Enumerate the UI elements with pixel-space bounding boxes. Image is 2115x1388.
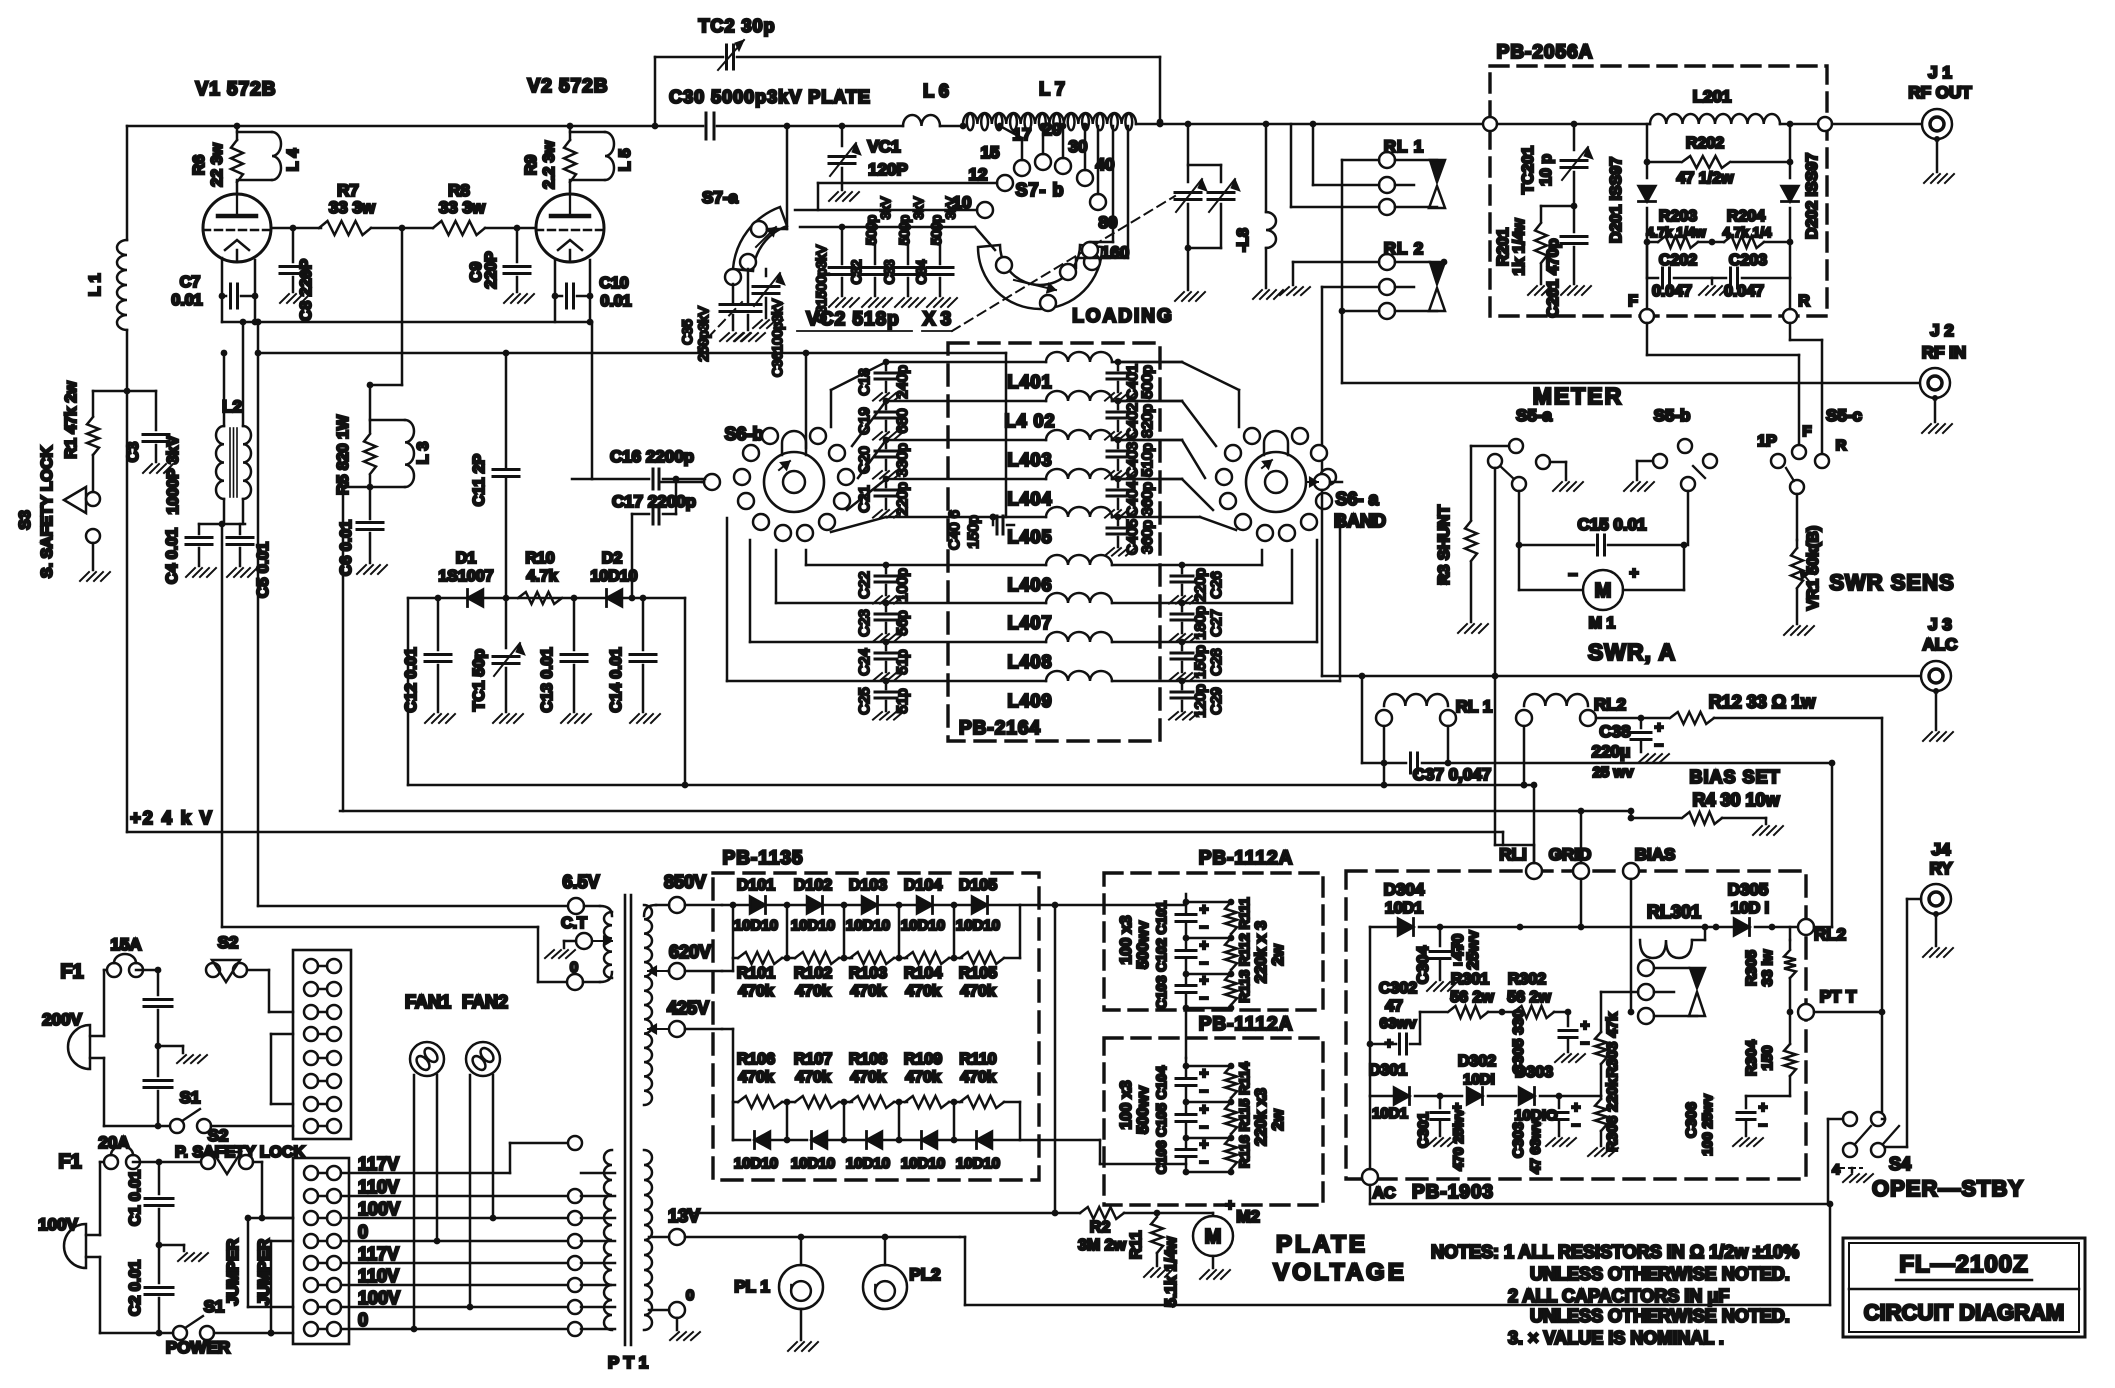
svg-text:V2 572B: V2 572B — [528, 76, 609, 97]
svg-text:15: 15 — [981, 143, 1000, 162]
capacitor C36 — [735, 269, 785, 377]
svg-text:−: − — [1759, 1117, 1768, 1134]
capacitor C203 — [1712, 242, 1790, 300]
capacitor C402 — [1107, 398, 1156, 439]
svg-text:+: + — [1581, 1017, 1590, 1034]
svg-text:C2 0.01: C2 0.01 — [127, 1260, 144, 1316]
S7-b contact 160 — [1060, 243, 1129, 280]
S7-b contact 12 — [969, 165, 1013, 191]
ground C13 — [561, 714, 591, 723]
svg-text:PB-1135: PB-1135 — [723, 848, 804, 869]
svg-text:150: 150 — [1759, 1045, 1776, 1070]
svg-text:L406: L406 — [1007, 575, 1052, 595]
svg-text:PL2: PL2 — [909, 1265, 940, 1284]
svg-text:51p: 51p — [894, 688, 911, 713]
svg-text:22 3w: 22 3w — [209, 143, 226, 187]
resistor R105 — [959, 952, 1004, 1000]
resistor R2 — [1078, 1207, 1160, 1254]
ground VR1 — [1784, 626, 1814, 635]
ground J4 — [1923, 948, 1953, 957]
svg-text:S1: S1 — [180, 1088, 201, 1107]
ground R201 — [1528, 286, 1558, 295]
ground S5-a — [1553, 482, 1583, 491]
svg-text:117V: 117V — [358, 1244, 399, 1264]
svg-text:L404: L404 — [1007, 489, 1052, 509]
wire S5a wiper line — [1495, 468, 1534, 862]
svg-text:VC1: VC1 — [867, 137, 900, 156]
inductor L403 — [1007, 430, 1112, 470]
svg-text:D305: D305 — [1728, 880, 1769, 899]
capacitor C34 — [914, 196, 958, 296]
wire RLI vert — [1533, 785, 1536, 863]
svg-text:R1 47k 2w: R1 47k 2w — [63, 381, 80, 459]
S6-b fan w9 — [727, 518, 886, 681]
wire L2 bottom — [224, 499, 243, 524]
capacitor C406 — [946, 510, 1014, 550]
svg-text:470k: 470k — [960, 1069, 996, 1086]
svg-text:510p: 510p — [1139, 443, 1156, 476]
wire R12 to S4 — [1882, 1118, 1885, 1121]
verticals PB1135 top — [733, 905, 954, 958]
label PLATE VOLTAGE — [1273, 1231, 1406, 1286]
svg-text:R9: R9 — [523, 155, 540, 176]
box PB-1903 — [1346, 871, 1806, 1203]
svg-text:S6- a: S6- a — [1335, 489, 1379, 509]
svg-text:470k: 470k — [738, 1069, 774, 1086]
wire J4 route — [1885, 899, 1921, 1147]
S6-a fan w6 — [1182, 550, 1262, 565]
svg-text:L201: L201 — [1693, 87, 1732, 106]
svg-text:C4 0.01: C4 0.01 — [164, 528, 181, 584]
svg-text:3kV: 3kV — [911, 196, 926, 219]
resistor R201 — [1495, 206, 1547, 284]
diode D301 — [1369, 1062, 1462, 1122]
ground 0V — [670, 1332, 700, 1340]
ground C23 — [873, 634, 903, 642]
svg-text:C1 0.01: C1 0.01 — [127, 1170, 144, 1226]
svg-text:C21: C21 — [856, 485, 873, 513]
ground C32 — [862, 298, 892, 307]
S7-b contact 80 — [1082, 213, 1117, 258]
svg-text:10D10: 10D10 — [734, 1155, 778, 1172]
ground C28 — [1169, 673, 1199, 681]
svg-text:120P: 120P — [868, 160, 908, 179]
svg-text:C303: C303 — [1510, 1122, 1527, 1158]
S7-b contact 40 — [1090, 155, 1114, 210]
svg-text:10D10: 10D10 — [791, 917, 835, 934]
ground M2 — [1200, 1270, 1230, 1279]
svg-text:C15 0.01: C15 0.01 — [1578, 515, 1647, 534]
svg-text:10 p: 10 p — [1538, 154, 1555, 186]
capacitor C303 — [1510, 1096, 1581, 1174]
inductor L1 — [87, 126, 127, 832]
tube V1 — [203, 194, 271, 262]
capacitor C31 — [814, 227, 855, 323]
ground C201 — [1561, 286, 1591, 295]
S6-a wiper out — [1306, 474, 1342, 490]
ground mid 2056 — [1699, 286, 1729, 295]
svg-text:TC2 30p: TC2 30p — [698, 16, 775, 36]
svg-text:SWR SENS: SWR SENS — [1829, 570, 1954, 595]
ground C26 — [1169, 596, 1199, 604]
svg-text:220μ: 220μ — [1592, 742, 1631, 761]
svg-text:TC201: TC201 — [1520, 146, 1537, 194]
svg-text:CIRCUIT DIAGRAM: CIRCUIT DIAGRAM — [1864, 1300, 2064, 1325]
capacitor C30 — [669, 87, 871, 139]
svg-text:D1: D1 — [456, 550, 477, 567]
svg-text:OPER—STBY: OPER—STBY — [1872, 1176, 2024, 1201]
svg-text:10D10: 10D10 — [590, 568, 637, 585]
ground C19 — [873, 432, 903, 440]
svg-text:FAN2: FAN2 — [462, 992, 508, 1012]
svg-text:BAND: BAND — [1334, 511, 1386, 531]
S6-a fan w3 — [1118, 440, 1205, 478]
ground C31 — [829, 298, 859, 307]
svg-text:FL—2100Z: FL—2100Z — [1899, 1251, 2028, 1278]
svg-text:117V: 117V — [358, 1154, 399, 1174]
switch S5-b sym — [1653, 406, 1717, 491]
svg-text:RL2: RL2 — [1594, 695, 1626, 714]
svg-text:D2: D2 — [602, 550, 623, 567]
S7-b contact 20 — [1043, 120, 1071, 174]
switch S5-a sym — [1488, 406, 1566, 491]
svg-text:33 Iw: 33 Iw — [1759, 949, 1776, 986]
svg-text:C8 220P: C8 220P — [298, 259, 315, 322]
wire L7 out — [1136, 121, 1490, 128]
svg-text:100 x3: 100 x3 — [1118, 915, 1135, 964]
svg-text:100 25wv: 100 25wv — [1699, 1094, 1715, 1156]
variable VC1 — [829, 126, 908, 190]
inductor L8 — [1235, 124, 1276, 288]
svg-text:4: 4 — [1832, 1161, 1840, 1177]
resistor R5 — [335, 414, 376, 495]
S6-b contacts — [734, 428, 854, 541]
lamp PL2 — [863, 1237, 941, 1309]
svg-text:PLATE: PLATE — [1276, 1231, 1368, 1258]
svg-text:470k: 470k — [960, 983, 996, 1000]
svg-text:200V: 200V — [42, 1010, 82, 1029]
resistor R6 — [191, 126, 243, 194]
diode D202 sym — [1782, 124, 1822, 242]
svg-text:100V: 100V — [358, 1199, 400, 1219]
connector upper jumper — [271, 1034, 293, 1104]
diode D108 — [846, 1132, 890, 1173]
wire ladder join — [1185, 1008, 1188, 1058]
svg-text:250p3kV: 250p3kV — [695, 306, 711, 362]
svg-text:25wv: 25wv — [1465, 930, 1482, 969]
svg-text:+: + — [1759, 1099, 1768, 1116]
diode D110 — [956, 1132, 1000, 1173]
caps C101-C103 ladder — [1176, 894, 1237, 1011]
svg-text:PB-2056A: PB-2056A — [1497, 42, 1594, 63]
ground C1 filter — [159, 1245, 208, 1261]
caps C104-C106 ladder — [1176, 1058, 1237, 1175]
label JUMPER2 — [256, 1238, 273, 1305]
capacitor C405 — [1107, 514, 1156, 555]
S6-a fan w2 — [1118, 401, 1216, 446]
svg-text:10D10: 10D10 — [846, 1155, 890, 1172]
svg-text:JUMPER: JUMPER — [225, 1238, 242, 1305]
svg-text:C203: C203 — [1729, 252, 1767, 269]
loading cap A — [1175, 124, 1207, 290]
svg-text:+: + — [1200, 901, 1209, 918]
inductor L4 — [237, 132, 302, 180]
diode D1 — [438, 550, 493, 607]
S7-b contact 30 — [1069, 137, 1093, 186]
S6-a fan w5 — [1118, 517, 1236, 530]
svg-text:15A: 15A — [110, 935, 141, 954]
notes line3 — [1508, 1286, 1729, 1306]
wire D304 left — [1367, 927, 1374, 1096]
ground C14 — [630, 714, 660, 723]
wire BIAS down — [1628, 879, 1635, 1015]
ground C404 — [1105, 510, 1135, 518]
svg-text:56 2w: 56 2w — [1450, 989, 1494, 1006]
svg-text:R116 R115 R114: R116 R115 R114 — [1236, 1062, 1252, 1168]
wire inside 2056A b — [1497, 121, 1650, 128]
primary tap wires — [581, 1173, 615, 1329]
box PB-2056A — [1490, 42, 1827, 316]
svg-text:C103 C102 C101: C103 C102 C101 — [1153, 901, 1169, 1009]
svg-text:10D10: 10D10 — [846, 917, 890, 934]
svg-text:−: − — [1568, 567, 1577, 584]
svg-text:470k: 470k — [738, 983, 774, 1000]
ground R11 — [1144, 1268, 1174, 1277]
svg-text:L4 02: L4 02 — [1004, 411, 1055, 431]
svg-text:RL 1: RL 1 — [1384, 137, 1425, 156]
capacitor C306 — [1683, 1094, 1768, 1156]
S6-b fan w7 — [776, 550, 886, 603]
svg-text:C304: C304 — [1415, 946, 1432, 984]
svg-text:L403: L403 — [1007, 450, 1052, 470]
svg-text:L405: L405 — [1007, 527, 1052, 547]
svg-text:R302: R302 — [1508, 971, 1546, 988]
svg-text:12: 12 — [969, 165, 988, 184]
ground C305 — [1555, 1054, 1585, 1062]
ground C22 — [873, 596, 903, 604]
svg-text:PB-1112A: PB-1112A — [1199, 848, 1294, 869]
label V1 572B — [196, 79, 277, 100]
svg-text:F: F — [1628, 293, 1638, 310]
svg-text:S7- b: S7- b — [1015, 180, 1064, 200]
ground C35 — [720, 333, 750, 341]
svg-text:P T 1: P T 1 — [608, 1353, 648, 1372]
svg-text:47 63wv: 47 63wv — [1527, 1120, 1543, 1174]
svg-text:D101: D101 — [737, 877, 775, 894]
meter M1 — [1519, 545, 1684, 632]
svg-text:R201: R201 — [1495, 228, 1512, 266]
svg-text:L401: L401 — [1007, 372, 1052, 392]
diode D201 — [1608, 124, 1656, 243]
box PB-1112A upper — [1104, 848, 1323, 1010]
ground C301 — [1427, 1138, 1457, 1146]
svg-text:C31500p3kV: C31500p3kV — [814, 245, 829, 323]
svg-text:L408: L408 — [1007, 652, 1052, 672]
capacitor C404 — [1107, 476, 1156, 517]
svg-text:S2: S2 — [208, 1126, 229, 1145]
label METER — [1533, 383, 1624, 409]
resistor R1 — [63, 381, 99, 492]
svg-text:D302: D302 — [1458, 1053, 1496, 1070]
transformer L2 — [216, 397, 251, 499]
label SWR A — [1588, 639, 1676, 665]
dash gang line — [698, 196, 1175, 348]
plug 200V — [42, 970, 104, 1126]
wire RL2coil left — [1521, 726, 1528, 788]
wire meter right — [1687, 491, 1690, 545]
svg-text:2w: 2w — [1270, 944, 1287, 966]
ground C402 — [1105, 432, 1135, 440]
lamp PL1 — [734, 1237, 823, 1340]
wire GRID stub — [1578, 879, 1585, 930]
svg-text:R104: R104 — [904, 965, 942, 982]
wire row L408 — [886, 641, 1046, 644]
capacitor C37 — [1362, 753, 1491, 784]
svg-text:+: + — [1572, 1099, 1581, 1116]
S6-a fan w8 — [1182, 540, 1317, 642]
relay RL2 sym — [1379, 239, 1447, 319]
inductor L407 — [1007, 593, 1112, 633]
capacitor C23 — [856, 600, 911, 637]
wire detector top — [408, 595, 685, 602]
svg-text:D202 ISS97: D202 ISS97 — [1804, 153, 1821, 239]
wire row L405 — [886, 514, 1046, 521]
svg-text:UNLESS OTHERWISE NOTED.: UNLESS OTHERWISE NOTED. — [1530, 1306, 1790, 1326]
ground C27 — [1169, 634, 1199, 642]
ground CT — [545, 950, 575, 958]
wire R5 bottom — [343, 484, 373, 811]
wire plate bus top — [127, 123, 655, 130]
title CIRCUIT DIAGRAM — [1864, 1300, 2064, 1325]
switch S1 lower — [100, 1297, 293, 1357]
terminal 620V — [648, 942, 722, 979]
fan1 wires — [411, 1075, 441, 1332]
svg-text:R303 47k: R303 47k — [1604, 1012, 1621, 1078]
svg-text:S5-a: S5-a — [1516, 406, 1552, 425]
svg-text:R103: R103 — [849, 965, 887, 982]
winding secondary low — [644, 1150, 652, 1330]
voltage lines — [341, 1143, 568, 1329]
ground S4 — [1843, 1168, 1873, 1182]
resistor R304 sym — [1743, 1012, 1796, 1096]
svg-text:R304: R304 — [1743, 1039, 1760, 1076]
bottom diode wires — [733, 1102, 1020, 1143]
RL301 contacts sym — [1638, 960, 1705, 1024]
capacitor C201 — [1545, 206, 1587, 318]
svg-text:F: F — [1802, 423, 1811, 440]
verticals PB1135 bottom — [733, 1102, 954, 1140]
ground S3 — [80, 572, 110, 581]
relay RL2 wires — [1293, 262, 1437, 311]
resistor R7 — [319, 181, 376, 235]
switch S2 upper — [206, 933, 293, 1012]
resistor R204 sym — [1709, 208, 1790, 248]
svg-text:C3: C3 — [125, 442, 142, 463]
capacitor C9 — [468, 228, 530, 292]
node in PB2056A — [1483, 117, 1832, 131]
wire L2 top — [221, 319, 247, 426]
svg-text:C22: C22 — [856, 571, 873, 599]
capacitor line2 — [144, 1046, 172, 1129]
svg-text:C36100p3kV: C36100p3kV — [770, 299, 785, 377]
capacitor C301 — [1415, 1096, 1466, 1171]
svg-text:D301: D301 — [1369, 1062, 1407, 1079]
capacitor C18 — [856, 359, 911, 399]
wire R down — [1790, 323, 1822, 452]
winding primary — [604, 1150, 612, 1330]
svg-text:500p: 500p — [864, 215, 879, 245]
wire R20x node — [1644, 239, 1794, 246]
capacitor C304 — [1415, 927, 1482, 984]
notes line5 — [1508, 1328, 1724, 1348]
wire S6a wiper down — [1321, 490, 1324, 676]
inductor L408 — [1007, 632, 1112, 672]
label 47k quarters — [1646, 225, 1772, 240]
svg-text:R101: R101 — [737, 965, 775, 982]
svg-text:R107: R107 — [794, 1051, 832, 1068]
ground C5 — [227, 568, 257, 577]
svg-text:R203: R203 — [1659, 208, 1697, 225]
connector upper circles — [304, 959, 341, 1133]
wire L401-5 to right — [1112, 362, 1182, 517]
capacitor C5 — [227, 524, 272, 598]
svg-text:RL301: RL301 — [1647, 902, 1701, 922]
svg-text:R109: R109 — [904, 1051, 942, 1068]
wire row L407 — [886, 602, 1046, 605]
capacitor C27 — [1171, 600, 1225, 640]
svg-text:33 3w: 33 3w — [329, 198, 376, 217]
inductor L5 — [570, 132, 634, 180]
resistor R4 sym — [1628, 811, 1766, 824]
node AC edge b — [1362, 1096, 1396, 1202]
inductor L404 — [1007, 469, 1112, 509]
wire C37 bus — [1448, 760, 1835, 767]
svg-text:220P: 220P — [483, 251, 500, 289]
wire TC2 bypass — [655, 57, 1163, 126]
capacitor C2 — [127, 1245, 173, 1336]
svg-text:S. SAFETY LOCK: S. SAFETY LOCK — [39, 445, 56, 578]
svg-text:C13 0.01: C13 0.01 — [539, 647, 556, 712]
switch S3 — [17, 445, 100, 578]
resistor R12 — [1641, 692, 1882, 724]
wire y1213 — [685, 902, 1080, 1217]
relay coil RL1 — [1376, 694, 1492, 726]
svg-text:+: + — [1200, 937, 1209, 954]
svg-text:20: 20 — [1043, 120, 1062, 139]
resistor R110 — [959, 1051, 1004, 1108]
svg-text:R4 30 10w: R4 30 10w — [1692, 790, 1780, 810]
ground C6 — [357, 565, 387, 574]
ground C18 — [873, 393, 903, 401]
capacitor C7 — [171, 258, 258, 322]
svg-text:1000P 3kV: 1000P 3kV — [165, 435, 182, 514]
terminal 6.5V b — [562, 872, 612, 916]
svg-text:C10: C10 — [599, 275, 628, 292]
svg-text:R108: R108 — [849, 1051, 887, 1068]
relay RL301 sym — [1640, 902, 1708, 958]
fuse F1 upper — [60, 935, 161, 983]
wire R8-V2 — [485, 225, 536, 232]
diode D305 sym — [1581, 880, 1798, 936]
svg-text:R5 820 1W: R5 820 1W — [335, 414, 352, 495]
switch S6-a — [1246, 431, 1386, 531]
node TC201 bot — [1541, 203, 1577, 210]
svg-text:F1: F1 — [58, 1151, 81, 1173]
svg-text:+: + — [1655, 719, 1664, 736]
resistor R203 sym — [1647, 208, 1712, 248]
svg-text:D103: D103 — [849, 877, 887, 894]
wire 620V row b — [722, 905, 1020, 971]
